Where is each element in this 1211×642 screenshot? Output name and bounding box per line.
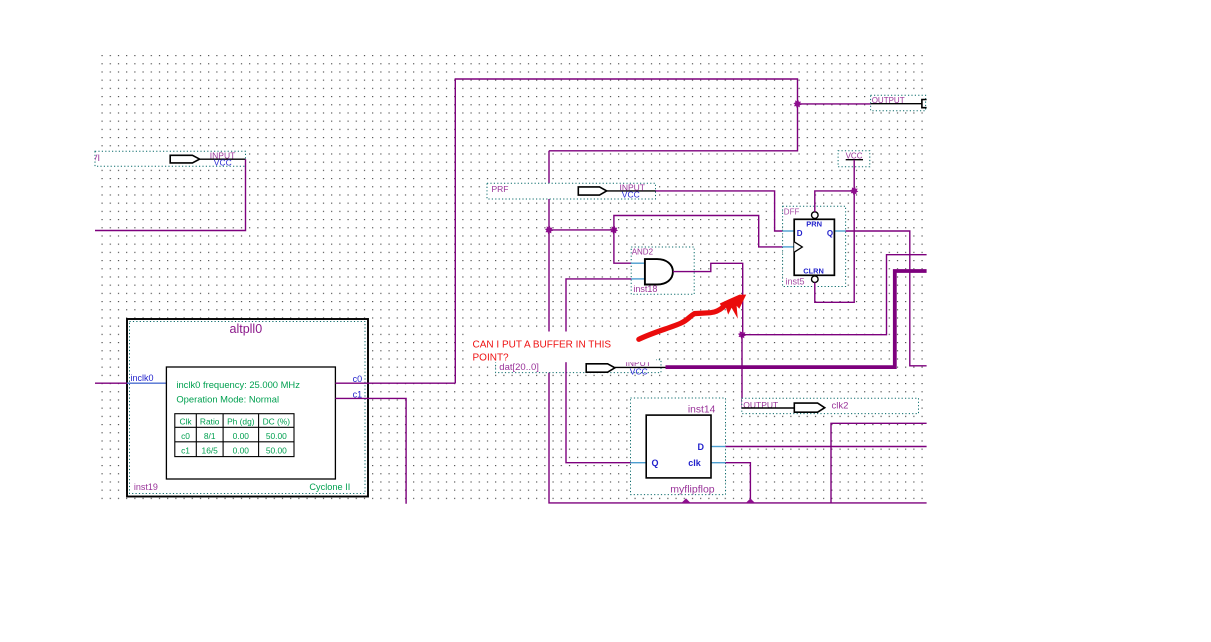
DFF inst5 xyxy=(783,208,846,287)
svg-text:AND2: AND2 xyxy=(632,248,654,257)
altpll0 table text xyxy=(179,417,290,456)
svg-text:Ratio: Ratio xyxy=(200,417,220,427)
svg-text:Q: Q xyxy=(827,229,833,238)
input pin dat[20..0] xyxy=(499,358,665,376)
wire VCC junction to PRN bubble xyxy=(815,191,854,212)
AND2 gate inst18 xyxy=(631,248,673,295)
svg-text:VCC: VCC xyxy=(622,190,640,200)
VCC power symbol xyxy=(846,152,863,161)
wire c0 out xyxy=(368,382,455,384)
output pin clk2 selection box xyxy=(742,398,919,413)
svg-text:D: D xyxy=(698,442,705,452)
altpll0 c1 stub xyxy=(335,397,368,399)
input pin PRF xyxy=(492,183,656,200)
AND2 gate selection box xyxy=(631,247,694,294)
VCC power symbol selection box xyxy=(838,151,870,167)
annotation red arrow xyxy=(639,295,746,340)
svg-text:Cyclone II: Cyclone II xyxy=(309,482,350,492)
svg-text:inst19: inst19 xyxy=(134,482,158,492)
altpll0 block fill xyxy=(127,319,368,497)
junction star at 742,335 xyxy=(738,331,746,339)
wire D input from right edge xyxy=(726,446,927,448)
wire AND2 output to junction xyxy=(673,263,743,334)
wire from pin VI down and left xyxy=(95,159,246,230)
svg-text:VCC: VCC xyxy=(214,158,232,168)
svg-text:inst18: inst18 xyxy=(633,284,657,294)
svg-text:inst5: inst5 xyxy=(786,277,805,287)
svg-text:0.00: 0.00 xyxy=(233,431,250,441)
long vertical wire and bottom horizontal wire xyxy=(549,151,927,503)
annotation white box xyxy=(466,332,656,363)
svg-text:DFF: DFF xyxy=(784,208,800,217)
svg-text:D: D xyxy=(797,229,803,238)
svg-text:inclk0 frequency: 25.000 MHz: inclk0 frequency: 25.000 MHz xyxy=(176,379,300,390)
svg-text:16/5: 16/5 xyxy=(202,446,219,456)
input pin VI symbol xyxy=(170,150,245,167)
wire inclk0 from canvas edge xyxy=(95,382,127,384)
svg-text:dat[20..0]: dat[20..0] xyxy=(499,362,539,373)
triangle junction at 750 xyxy=(746,498,755,503)
DFF selection box xyxy=(783,206,846,286)
output pin (top right) xyxy=(871,96,927,108)
wire junction right then up to canvas edge xyxy=(742,255,927,335)
output pin clk2 xyxy=(742,400,849,412)
input pin PRF selection box xyxy=(487,183,656,199)
altpll0 inclk0 stub xyxy=(127,382,166,384)
svg-text:Q: Q xyxy=(652,458,659,468)
wire Q to AND2 bottom input xyxy=(566,279,631,463)
wire junction down to clk2 output pin xyxy=(741,335,743,408)
wire clk down to bottom wire xyxy=(726,463,751,503)
svg-text:inclk0: inclk0 xyxy=(131,373,154,383)
myflipflop selection box xyxy=(631,398,726,495)
svg-text:PRN: PRN xyxy=(806,219,822,228)
svg-text:Ph (dg): Ph (dg) xyxy=(227,417,255,427)
svg-text:inst14: inst14 xyxy=(688,404,716,415)
svg-text:c0: c0 xyxy=(181,431,190,441)
svg-text:Operation Mode: Normal: Operation Mode: Normal xyxy=(176,393,279,404)
svg-text:altpll0: altpll0 xyxy=(230,322,263,336)
svg-text:8/1: 8/1 xyxy=(204,431,216,441)
svg-text:50.00: 50.00 xyxy=(266,446,287,456)
altpll0 c0 stub xyxy=(335,382,368,384)
junction star at 614,230 xyxy=(610,226,618,234)
altpll0 inner parameter box xyxy=(166,367,335,479)
wire Q output to right edge xyxy=(846,231,927,366)
junction star at 549,230 xyxy=(545,226,553,234)
svg-text:clk: clk xyxy=(688,458,702,468)
bus wire dat thick xyxy=(666,271,927,367)
svg-text:Clk: Clk xyxy=(179,417,192,427)
altpll0 clock table xyxy=(175,414,294,457)
svg-text:clk2: clk2 xyxy=(832,401,849,412)
svg-text:myflipflop: myflipflop xyxy=(670,483,715,495)
svg-text:50.00: 50.00 xyxy=(266,431,287,441)
svg-text:PRF: PRF xyxy=(492,184,509,194)
junction star at 854,191 xyxy=(850,187,858,195)
wire c0 loop: c0 up, across top, down to output junction, back left to long vertical xyxy=(455,79,797,383)
wire junction to top OUTPUT pin xyxy=(798,103,871,105)
svg-text:CLRN: CLRN xyxy=(803,266,824,275)
svg-text:c1: c1 xyxy=(181,446,190,456)
triangle junction at 686 xyxy=(682,498,691,503)
input pin VI label xyxy=(92,153,101,163)
altpll0 selection box xyxy=(130,322,366,494)
wire right mid from edge down to bottom wire xyxy=(831,423,927,503)
wire PRF to DFF D input xyxy=(656,191,783,231)
wire clock net to DFF clk xyxy=(614,216,783,247)
svg-text:CAN I PUT A BUFFER IN THIS: CAN I PUT A BUFFER IN THIS xyxy=(473,339,612,350)
schematic canvas dot grid xyxy=(95,50,927,505)
input pin VI selection box xyxy=(95,151,246,166)
input pin dat[20..0] selection box xyxy=(496,360,661,373)
svg-text:VI: VI xyxy=(92,153,101,163)
svg-text:DC (%): DC (%) xyxy=(263,417,291,427)
wire c1 out down xyxy=(368,398,406,503)
svg-text:VCC: VCC xyxy=(630,366,648,376)
myflipflop inst14 xyxy=(631,404,726,495)
junction star at 797,104 xyxy=(793,100,801,108)
svg-text:0.00: 0.00 xyxy=(233,446,250,456)
wire VCC down to CLRN loop xyxy=(815,160,854,303)
wire to AND2 top input xyxy=(614,230,631,263)
svg-text:POINT?: POINT? xyxy=(473,353,510,364)
wire between junctions at y=230 xyxy=(549,229,614,231)
output pin (top right) selection box xyxy=(871,95,926,110)
